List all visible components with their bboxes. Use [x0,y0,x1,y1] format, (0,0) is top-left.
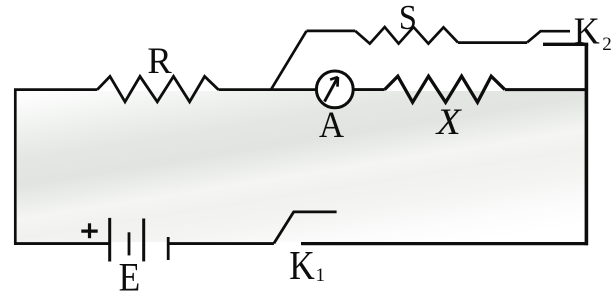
wire S to switch K2 [458,41,527,44]
svg-text:2: 2 [602,34,612,55]
switch K2 blade [527,31,570,42]
svg-text:1: 1 [316,265,326,286]
wire left edge [14,90,17,245]
switch K2 fixed contact [543,43,588,46]
battery E plus sign [81,223,97,238]
wire bottom left [14,242,110,245]
ammeter A [316,71,353,108]
wire top left [14,88,97,91]
wire ammeter to X [352,88,384,91]
svg-text:X: X [434,102,462,143]
wire R to ammeter [219,88,318,91]
battery E [110,218,169,262]
wire X to right edge [505,88,588,91]
node junction to S branch [271,31,307,90]
interior shading of loop [17,91,585,242]
wire battery to K1 [168,242,274,245]
svg-text:E: E [119,255,141,296]
resistor S [355,27,458,44]
resistor R [97,76,218,101]
switch K1 blade [274,212,337,244]
wire right edge [585,44,589,245]
svg-text:A: A [319,105,344,146]
svg-text:R: R [147,40,172,81]
wire K1 to right edge [301,242,588,245]
wire S branch left [307,30,356,33]
svg-text:K: K [289,242,315,288]
resistor X [385,76,505,102]
svg-text:S: S [399,0,417,37]
